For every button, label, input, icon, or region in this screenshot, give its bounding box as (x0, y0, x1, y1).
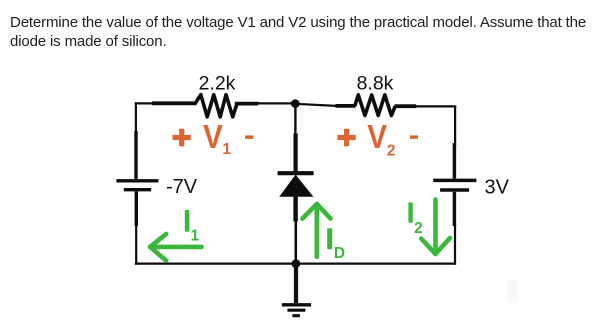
svg-text:2: 2 (414, 220, 423, 237)
wire top-left segment (135, 102, 153, 104)
resistor R1 2.2k (152, 95, 258, 117)
svg-text:2: 2 (387, 143, 396, 160)
battery V2 3V (433, 143, 476, 226)
svg-text:1: 1 (222, 141, 231, 158)
wire middle lower (294, 220, 297, 264)
label I1 (185, 210, 200, 245)
diode D1 (278, 134, 314, 222)
ground (282, 264, 311, 316)
wire bottom (135, 262, 456, 264)
wire between node A and R2 (295, 104, 336, 106)
svg-text:3V: 3V (485, 177, 510, 199)
current arrow I1 (150, 234, 202, 261)
wire between R1 and node A (257, 102, 295, 104)
resistor R2 8.8k (335, 95, 416, 116)
node B junction dot (292, 259, 301, 268)
svg-text:V: V (367, 118, 387, 155)
current arrow I2 (421, 200, 450, 255)
wire between R2 and top-right corner (415, 105, 456, 107)
voltage label + V2 - (337, 118, 418, 160)
svg-text:8.8k: 8.8k (357, 73, 394, 95)
label ID (327, 228, 345, 262)
wire right vertical lower (454, 225, 456, 265)
problem statement text (10, 13, 602, 51)
wire right vertical upper (454, 106, 456, 145)
svg-text:D: D (334, 245, 345, 262)
battery V1 -7V (116, 131, 158, 226)
svg-text:1: 1 (190, 228, 199, 245)
faint artifact rectangle (507, 279, 518, 303)
wire middle upper (294, 104, 296, 136)
svg-text:2.2k: 2.2k (199, 73, 236, 95)
wire left vertical lower (135, 224, 137, 265)
wire left vertical upper (135, 102, 137, 133)
svg-text:V: V (203, 118, 223, 155)
voltage label + V1 - (173, 118, 254, 158)
label I2 (408, 202, 422, 236)
current arrow ID (302, 204, 330, 257)
svg-text:-7V: -7V (166, 176, 198, 198)
node A junction dot (291, 99, 300, 108)
